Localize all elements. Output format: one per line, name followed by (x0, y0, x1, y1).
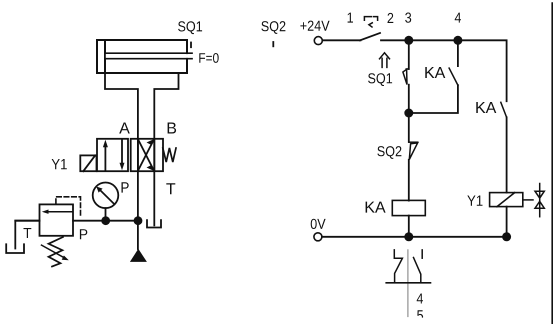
junction node (P line) (134, 216, 143, 225)
node 4 junction (453, 36, 462, 45)
0V rail (322, 236, 507, 238)
label T (valve port) (166, 183, 175, 194)
contact SQ2 (NC limit switch) (409, 142, 418, 159)
wire cylinder port B to valve port B (154, 73, 178, 171)
label A (valve port) (119, 123, 130, 134)
wire switch to node 3 (381, 39, 409, 41)
top rail node 4 to right branch (458, 40, 507, 101)
label SQ2 (contact) (377, 146, 401, 159)
pump source triangle (130, 249, 147, 262)
relief valve pilot line (dashed) (56, 197, 81, 217)
cylinder body (97, 40, 187, 73)
top rail node 3 to node 4 (409, 39, 458, 41)
wire node 3 down to SQ1 contact (408, 40, 410, 69)
contact SQ1 (NO limit switch) (403, 69, 409, 85)
label KA (coil) (366, 202, 386, 213)
label 0V (311, 219, 326, 229)
right border (551, 3, 553, 324)
solenoid actuator Y1 symbol (80, 155, 96, 171)
wire valve port T down to tank (153, 139, 155, 225)
node A junction (404, 109, 413, 118)
tank (valve T) (147, 220, 161, 227)
switch blade (360, 33, 380, 40)
valve right position square (131, 139, 163, 171)
label node 3 (405, 13, 411, 23)
tank (relief T) (6, 244, 24, 253)
wire relief valve to tank (15, 221, 39, 249)
SQ2 tick (272, 42, 274, 46)
solenoid coil Y1 (490, 193, 523, 207)
label SQ1 (contact) (368, 73, 392, 86)
relief valve adjustment arrow (42, 245, 69, 260)
cross-ref NC contact symbol (394, 250, 402, 283)
label F=0 (199, 53, 218, 63)
wire valve port P down to pump (137, 139, 139, 249)
wire KA coil to 0V (408, 216, 410, 237)
piston rod (105, 53, 192, 59)
label KA (contact 1) (425, 67, 445, 78)
cross-ref bar (386, 282, 430, 284)
label T (relief) (24, 228, 32, 238)
cross-ref row number 5 (clipped) (417, 310, 423, 320)
valve return spring (163, 148, 176, 162)
contact KA2 (NO) (501, 102, 507, 192)
label SQ2 (top left) (261, 21, 285, 34)
pressure gauge (93, 183, 119, 221)
0V terminal (314, 233, 322, 241)
label B (valve port) (168, 123, 177, 134)
label terminal 1 (348, 13, 353, 23)
+24V terminal (314, 37, 322, 45)
limit switch SQ1 position tick (190, 43, 192, 48)
wire Y1 coil to 0V (506, 207, 508, 237)
label +24V (300, 21, 329, 31)
junction KA coil / 0V (404, 232, 413, 241)
wire SQ1 contact to node A (408, 85, 410, 142)
label P (gauge) (122, 182, 129, 192)
junction Y1 coil / 0V (502, 232, 511, 241)
wire +24V to switch (322, 39, 360, 41)
cross-ref NO contact symbol (414, 250, 423, 283)
relief valve spring (49, 237, 64, 267)
label terminal 2 (388, 13, 394, 23)
valve left position down arrow (120, 140, 125, 170)
valve left position square (97, 139, 128, 171)
label Y1 (coil) (467, 196, 482, 206)
contact cross-reference divider (407, 250, 409, 317)
surge suppressor on Y1 (523, 184, 545, 217)
relay coil KA (392, 200, 425, 215)
label KA (contact 2) (476, 102, 496, 113)
cross-ref row number 4 (417, 294, 423, 304)
valve crossed flow path A to T (138, 139, 154, 171)
label Y1 (valve) (52, 159, 67, 169)
wire SQ2 contact to KA coil (408, 160, 410, 201)
contact KA1 (NO) (409, 40, 458, 113)
wire cylinder port A to valve port A (105, 73, 138, 171)
label SQ1 (cylinder) (178, 21, 202, 34)
SQ1 actuation arrow (380, 53, 390, 68)
junction node (gauge) (101, 216, 110, 225)
valve crossed flow path P to B (138, 139, 154, 171)
relief valve body (40, 204, 74, 235)
relief valve flow arrow (42, 210, 72, 214)
node 3 junction (404, 36, 413, 45)
valve left position up arrow (103, 140, 108, 170)
bottom clip of cross-ref list (398, 318, 438, 324)
switch detent symbol (dashed) (364, 17, 377, 27)
main pressure line (15, 220, 138, 222)
label P (relief) (80, 229, 87, 239)
label node 4 (455, 13, 461, 23)
